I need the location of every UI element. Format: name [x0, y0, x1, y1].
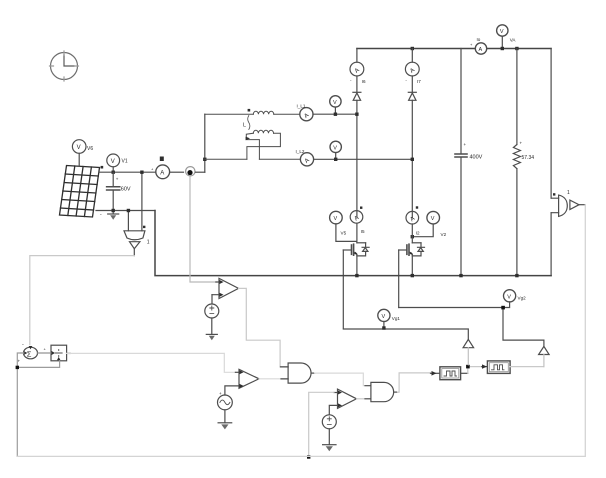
- MOSFET Q1 drain ammeter I5: [350, 211, 363, 224]
- svg-text:I_L1: I_L1: [297, 104, 306, 109]
- wire: sensor VS1 out to sum: [30, 256, 135, 345]
- op-amp U1 (comparator): [212, 278, 239, 304]
- svg-text:Io: Io: [477, 37, 481, 42]
- svg-text:-: -: [22, 342, 24, 348]
- wire: diode branch 2 upper: [411, 49, 413, 92]
- wire: divider output stub: [67, 352, 71, 354]
- svg-text:V: V: [333, 100, 337, 106]
- ground G2: [206, 333, 217, 335]
- wire: U3 out to AND2 lower input: [357, 398, 371, 400]
- voltage probe V6: [72, 140, 86, 166]
- svg-text:Vg1: Vg1: [392, 316, 401, 321]
- dc source E1: [205, 304, 219, 334]
- node: sensor- on rail: [127, 209, 130, 212]
- svg-text:+: +: [18, 359, 21, 364]
- monostable M1: [431, 367, 468, 380]
- voltage probe Vg2: [503, 290, 516, 308]
- op-amp U3 (comparator PWM2): [329, 389, 356, 415]
- wire: Q2 gate: [398, 250, 400, 308]
- top rail (DC bus +): [357, 48, 551, 50]
- voltage probe V1: [107, 154, 120, 172]
- node: Q2 source: [411, 274, 414, 277]
- wire: AND1 out to AND2 upper input: [315, 373, 371, 386]
- svg-text:A: A: [479, 47, 483, 53]
- wire: control voltage to comparator U2: [67, 353, 236, 372]
- svg-text:400V: 400V: [470, 155, 483, 161]
- dc source E2: [322, 415, 336, 445]
- svg-text:+: +: [464, 142, 467, 147]
- svg-text:V5: V5: [341, 231, 347, 236]
- node: feedback split: [16, 366, 19, 369]
- node: row2 T-junction: [203, 158, 206, 161]
- clock (simulation time): [50, 51, 79, 81]
- node: C2 bottom: [459, 274, 462, 277]
- svg-text:I7: I7: [417, 79, 421, 84]
- svg-text:V: V: [334, 216, 338, 222]
- wire: U2 out to AND1 lower input: [259, 378, 288, 380]
- svg-text:I_L2: I_L2: [296, 149, 305, 154]
- voltage probe (row 1): [330, 96, 341, 114]
- svg-text:I6: I6: [362, 79, 366, 84]
- ammeter Io: [475, 43, 486, 54]
- svg-text:57.34: 57.34: [522, 155, 535, 161]
- node: row1 joins branch1: [355, 113, 358, 116]
- node: row2 joins branch2: [411, 158, 414, 161]
- svg-text:I5: I5: [361, 229, 365, 234]
- wire: node tap down to comparator U1: [190, 176, 216, 282]
- resistor R1 57.34: [513, 49, 520, 276]
- sum block S1: [24, 347, 38, 359]
- node: right diode top: [411, 47, 414, 50]
- node: R1 bottom: [515, 274, 518, 277]
- svg-text:V1: V1: [122, 159, 128, 165]
- node: cap bottom junction: [112, 209, 115, 212]
- svg-text:+: +: [219, 391, 222, 396]
- wire: diode branch 1 upper: [356, 49, 358, 92]
- gating block T2 (triangle driver): [399, 308, 549, 367]
- ammeter I_L2: [300, 153, 412, 166]
- wire: output sensor feedback bus: [17, 205, 585, 457]
- MOSFET Q2: [399, 224, 425, 276]
- ammeter I6: [350, 62, 364, 76]
- wire: Q1 gate: [342, 250, 344, 328]
- wire: U1 output to AND1: [239, 288, 288, 367]
- svg-text:I2: I2: [416, 230, 420, 235]
- bottom rail (DC bus -): [155, 211, 551, 276]
- wire PV- bottom rail: [96, 210, 155, 212]
- diode D2: [408, 92, 416, 217]
- svg-text:V6: V6: [87, 146, 93, 152]
- svg-text:VA: VA: [510, 38, 517, 43]
- svg-text:Σ: Σ: [27, 349, 32, 358]
- node: sensor+ on input wire: [140, 171, 143, 174]
- divide block DIV1: [38, 345, 67, 361]
- solar panel PV1: [60, 166, 100, 218]
- gating block T1 (triangle driver): [343, 329, 473, 365]
- AND gate A1: [281, 363, 315, 383]
- monostable M2: [482, 361, 544, 374]
- wire: feedback tap to U3 plus: [309, 392, 334, 457]
- wire PV+ to input ammeter: [99, 171, 156, 173]
- svg-text:V: V: [111, 159, 115, 165]
- svg-text:A: A: [160, 170, 164, 176]
- wire node to riser: [196, 171, 205, 173]
- ammeter I_L1: [300, 108, 357, 121]
- wire: feedback to sum and divide: [17, 353, 59, 456]
- capacitor C2 400V: [455, 49, 467, 276]
- node: resistor top tap: [515, 47, 518, 50]
- node A: input tap node: [186, 167, 195, 176]
- voltage probe (row 2): [330, 141, 341, 159]
- svg-text:V: V: [431, 216, 435, 222]
- svg-text:V: V: [333, 145, 337, 151]
- op-amp U2 (comparator PWM1): [225, 369, 259, 395]
- voltage probe Vg1: [378, 309, 390, 328]
- ground G4: [323, 444, 336, 446]
- ground G3: [218, 422, 232, 424]
- wire riser to L1/L2: [204, 114, 206, 172]
- voltage probe VA: [497, 25, 508, 49]
- node: PV + terminal mark: [101, 166, 104, 169]
- svg-text:Vg2: Vg2: [518, 296, 527, 301]
- svg-text:60V: 60V: [121, 187, 131, 193]
- ground G1: [108, 211, 119, 220]
- node: M1 out / driver tap: [468, 367, 482, 374]
- svg-text:1: 1: [567, 190, 570, 196]
- voltage probe V5: [330, 211, 357, 241]
- node: Q1 source: [355, 274, 358, 277]
- ammeter I7: [405, 62, 419, 76]
- svg-text:V: V: [77, 145, 81, 151]
- svg-text:+: +: [520, 141, 523, 146]
- capacitor C1 60V: [107, 172, 120, 210]
- svg-text:+: +: [116, 177, 119, 182]
- MOSFET Q1: [343, 223, 369, 275]
- svg-text:V2: V2: [441, 232, 447, 237]
- svg-text:1: 1: [147, 240, 150, 246]
- AND gate A2: [365, 382, 398, 401]
- svg-text:V: V: [507, 294, 511, 300]
- MOSFET Q2 drain ammeter I2: [406, 211, 419, 224]
- inductor L1 (coupled): [205, 111, 300, 114]
- inductor L2 (coupled): [205, 130, 301, 159]
- voltage sensor VS1 (input): [124, 172, 145, 255]
- svg-text:V: V: [500, 29, 504, 35]
- ac source Vtri1: [218, 395, 233, 423]
- wire: AND2 out to monostable M1: [398, 373, 431, 392]
- wire: bus right end down to sensor: [550, 49, 552, 199]
- node: V1 tap junction: [112, 171, 115, 174]
- svg-text:V: V: [382, 314, 386, 320]
- ammeter Ii (input): [156, 165, 184, 179]
- svg-text:L: L: [243, 123, 246, 129]
- voltage sensor VSo (output): [551, 195, 585, 216]
- node: feedback tap: [307, 455, 310, 458]
- diode D1: [353, 92, 361, 217]
- voltage probe V2: [412, 211, 439, 236]
